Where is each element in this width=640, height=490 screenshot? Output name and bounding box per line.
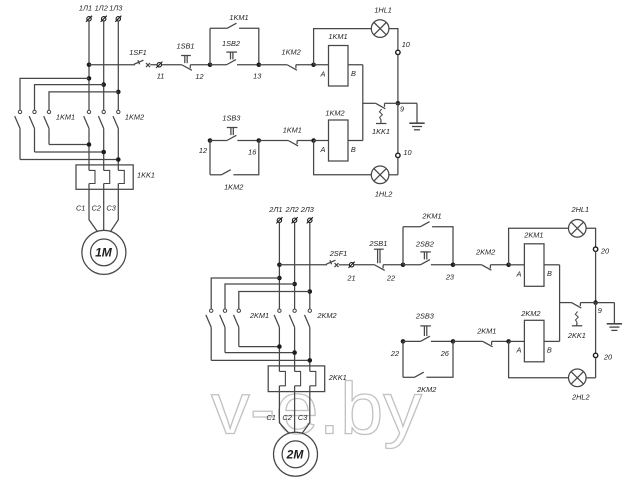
svg-text:1M: 1M xyxy=(95,246,113,260)
terminal 1L2 xyxy=(102,17,106,21)
wire coils common to thermal contact xyxy=(363,102,376,104)
node 9 xyxy=(593,300,598,305)
wire reverse loop from L2 xyxy=(225,284,295,309)
signal lamp 1HL1 xyxy=(371,20,389,38)
svg-text:A: A xyxy=(320,69,326,78)
svg-text:1KK1: 1KK1 xyxy=(137,171,155,180)
contactor 1KM2 reversing pole 3 xyxy=(47,110,50,113)
contactor 1KM2 reversing pole 1 xyxy=(18,110,21,113)
svg-text:1KM1: 1KM1 xyxy=(56,113,75,122)
start button 2SB2 xyxy=(420,260,430,265)
wire interlock to coil node xyxy=(490,264,508,266)
thermal contact 1KK1 (NC) xyxy=(376,103,386,109)
svg-text:1KM1: 1KM1 xyxy=(229,13,248,22)
svg-text:C3: C3 xyxy=(298,413,308,422)
wire thermal contact to node 9 xyxy=(385,102,398,104)
auxiliary contact 2KM1 (seal-in) xyxy=(420,222,429,227)
svg-text:2KM1: 2KM1 xyxy=(249,311,269,320)
junction coil 1 node xyxy=(311,62,316,67)
wire right bus vertical xyxy=(559,265,561,342)
wire bus to lamp 2 corner xyxy=(595,358,597,378)
svg-text:2KK1: 2KK1 xyxy=(567,331,586,340)
terminal 1L3 xyxy=(116,17,120,21)
terminal 2L1 xyxy=(277,218,281,222)
wire seal-in branch left xyxy=(403,226,420,228)
wire node to coil 2KM1 xyxy=(509,264,525,266)
wire to stop button xyxy=(354,264,375,266)
svg-text:B: B xyxy=(351,145,356,154)
stop button 2SB1 xyxy=(375,265,385,271)
wire reverse return to L1 column xyxy=(49,144,89,146)
junction reverse return on column 2 xyxy=(101,150,106,155)
main switch 2SF1 xyxy=(279,264,327,266)
junction 22 xyxy=(401,263,406,268)
svg-text:1SB2: 1SB2 xyxy=(222,39,240,48)
svg-text:2M: 2M xyxy=(286,447,305,461)
wire to motor C3 xyxy=(302,386,309,433)
start button 2SB3 xyxy=(420,336,430,341)
svg-text:1KM2: 1KM2 xyxy=(325,109,344,118)
wire to motor C2 xyxy=(294,386,296,433)
svg-text:C1: C1 xyxy=(76,204,85,213)
contactor 2KM2 reversing pole 1 xyxy=(210,309,213,312)
svg-text:v-e.by: v-e.by xyxy=(211,369,423,450)
svg-text:2KM1: 2KM1 xyxy=(421,211,441,220)
contactor 2KM2 reversing pole 2 xyxy=(223,309,226,312)
svg-text:1KM2: 1KM2 xyxy=(282,48,301,57)
wire SB3 to junction xyxy=(237,140,258,142)
auxiliary contact 1KM1 (seal-in) xyxy=(227,23,236,28)
svg-text:C3: C3 xyxy=(106,204,116,213)
svg-text:26: 26 xyxy=(440,349,450,358)
svg-text:16: 16 xyxy=(248,148,257,157)
svg-text:B: B xyxy=(547,346,552,355)
svg-text:2KM2: 2KM2 xyxy=(316,311,336,320)
interlock contact 1KM1 (NC) xyxy=(288,141,298,146)
svg-text:1KM2: 1KM2 xyxy=(125,113,144,122)
junction 26 xyxy=(451,339,456,344)
junction on L3 (reverse loop) xyxy=(308,289,313,294)
auxiliary contact 2KM2 (seal-in) xyxy=(414,372,423,377)
wire SB2 to junction xyxy=(431,264,453,266)
wire reverse loop from L2 xyxy=(35,85,104,111)
svg-text:12: 12 xyxy=(199,146,207,155)
svg-text:2SB2: 2SB2 xyxy=(415,239,434,248)
svg-text:2KM1: 2KM1 xyxy=(476,326,496,335)
heater element phase 3 xyxy=(310,371,316,385)
wire coil 2 to right bus xyxy=(544,340,560,342)
wire reverse return to L3 column xyxy=(211,359,310,361)
contactor 1KM2 reversing pole 2 xyxy=(33,110,36,113)
wire reverse loop from L3 xyxy=(239,292,310,310)
wire reverse return to L2 column xyxy=(35,151,104,153)
svg-text:2SB3: 2SB3 xyxy=(415,311,435,320)
start button 1SB3 xyxy=(227,135,237,140)
wire phase L1 vertical xyxy=(278,223,280,309)
contactor 2KM1 pole 3 xyxy=(308,309,311,312)
signal lamp 1HL2 xyxy=(371,166,389,184)
coil 2KM2 xyxy=(524,320,544,362)
wire node to coil 1KM2 xyxy=(314,140,329,142)
junction on L2 (reverse loop) xyxy=(101,82,106,87)
terminal 10 (upper) xyxy=(396,50,400,54)
wire lamp 1 to supply bus xyxy=(586,228,596,247)
wire node down to lamp 2 xyxy=(314,141,372,175)
wire reverse return to L2 column xyxy=(225,352,295,354)
svg-text:11: 11 xyxy=(157,72,165,81)
svg-text:C1: C1 xyxy=(266,413,275,422)
svg-text:23: 23 xyxy=(445,272,455,281)
heater element phase 1 xyxy=(279,371,285,385)
contactor 1KM1 pole 3 xyxy=(117,110,120,113)
coil 1KM2 xyxy=(329,120,349,161)
wire to interlock contact xyxy=(453,264,482,266)
svg-text:1KM1: 1KM1 xyxy=(328,32,347,41)
wire coils common to thermal contact xyxy=(560,302,572,304)
junction coil 1 node xyxy=(506,263,511,268)
coil 2KM1 xyxy=(524,244,544,286)
wire lamp 2 to supply bus xyxy=(586,377,596,379)
svg-text:2HL1: 2HL1 xyxy=(571,205,590,214)
interlock contact 1KM2 (NC) xyxy=(287,65,297,70)
signal lamp 2HL2 xyxy=(569,369,587,387)
svg-text:B: B xyxy=(351,69,356,78)
wire supply bus to node 9 xyxy=(595,251,597,302)
svg-text:A: A xyxy=(515,346,521,355)
wire phase L2 vertical xyxy=(294,223,296,309)
svg-text:2SF1: 2SF1 xyxy=(329,249,348,258)
wire junction down to seal-in 2 xyxy=(209,141,211,175)
interlock contact 2KM1 (NC) xyxy=(483,341,493,346)
junction reverse return on column 3 xyxy=(308,358,313,363)
junction 12 (rung 2) xyxy=(208,138,213,143)
motor 2M xyxy=(274,432,318,476)
wire right bus vertical xyxy=(362,65,364,141)
interlock contact 2KM2 (NC) xyxy=(482,265,492,270)
motor 1M xyxy=(82,230,126,274)
wire SB2 to junction xyxy=(237,64,259,66)
svg-text:1Л3: 1Л3 xyxy=(109,4,123,13)
svg-text:1KK1: 1KK1 xyxy=(372,127,390,136)
svg-text:1SB1: 1SB1 xyxy=(177,42,195,51)
junction 16 xyxy=(257,138,262,143)
wire bus node 9 down xyxy=(397,103,399,153)
wire lamp 1 to supply bus xyxy=(389,29,398,51)
wire seal-in 2 left xyxy=(403,376,414,378)
wire SB3 to junction xyxy=(431,340,453,342)
wire junction to start button xyxy=(403,264,420,266)
heater element phase 1 xyxy=(89,170,95,183)
wire seal-in 2 right xyxy=(426,341,453,377)
svg-text:1SF1: 1SF1 xyxy=(129,48,147,57)
wire coil 2 to right bus xyxy=(348,140,363,142)
junction 23 xyxy=(451,263,456,268)
terminal 1L1 xyxy=(87,17,91,21)
svg-text:C2: C2 xyxy=(282,413,291,422)
junction on L1 (control tap) xyxy=(277,263,282,268)
wire reverse return to L1 column xyxy=(239,346,280,348)
terminal 2L2 xyxy=(292,218,296,222)
wire to motor C3 xyxy=(111,184,119,232)
junction coil 2 node xyxy=(506,339,511,344)
junction on L1 (reverse loop) xyxy=(277,276,282,281)
wire reverse loop from L3 xyxy=(49,92,118,110)
wire junction up to seal-in branch xyxy=(402,227,404,265)
wire seal-in branch right xyxy=(432,227,453,265)
heater element phase 2 xyxy=(295,371,301,385)
contactor 2KM1 pole 2 xyxy=(293,309,296,312)
wire SB1 to junction xyxy=(383,264,403,266)
terminal 21 xyxy=(349,263,353,267)
wire interlock to coil node xyxy=(296,64,314,66)
wire seal-in 2 left xyxy=(210,174,221,176)
coil 1KM1 xyxy=(329,46,349,87)
main switch 1SF1 xyxy=(89,64,135,66)
wire interlock 2 to coil node xyxy=(492,340,509,342)
svg-text:21: 21 xyxy=(346,273,355,282)
wire phase L1 vertical xyxy=(88,21,90,110)
wire SB1 to junction xyxy=(190,64,210,66)
wire to interlock contact xyxy=(259,64,287,66)
terminal 20 (lower) xyxy=(593,353,597,357)
svg-text:A: A xyxy=(515,269,521,278)
wire phase L3 vertical xyxy=(309,223,311,309)
svg-text:2SB1: 2SB1 xyxy=(368,239,387,248)
svg-text:13: 13 xyxy=(253,72,262,81)
heater element phase 2 xyxy=(104,170,110,183)
svg-text:1HL1: 1HL1 xyxy=(374,5,392,14)
junction reverse return on column 1 xyxy=(87,142,92,147)
start button 1SB2 xyxy=(227,60,237,65)
wire junction up to seal-in branch xyxy=(209,28,211,64)
wire reverse loop from L1 xyxy=(211,278,279,309)
junction 13 xyxy=(257,62,262,67)
thermal relay 1KK1 (power element box) xyxy=(76,165,133,189)
wire seal-in branch right xyxy=(239,28,259,64)
wire reverse loop from L1 xyxy=(20,78,89,110)
svg-text:2KM2: 2KM2 xyxy=(475,248,495,257)
svg-text:10: 10 xyxy=(402,40,411,49)
svg-text:B: B xyxy=(547,269,552,278)
svg-text:2KM2: 2KM2 xyxy=(520,309,540,318)
wire lamp 2 to supply bus xyxy=(389,174,398,176)
wire bus to lamp 2 corner xyxy=(397,158,399,175)
svg-text:9: 9 xyxy=(598,306,602,315)
wire to stop button xyxy=(162,64,182,66)
wire junction to start button xyxy=(210,64,227,66)
junction 22 (rung 2) xyxy=(401,339,406,344)
terminal 11 xyxy=(157,63,161,67)
wire to interlock contact 2 xyxy=(453,340,483,342)
wire coil 1 to right bus xyxy=(544,264,560,266)
junction 12 xyxy=(208,62,213,67)
contactor 2KM1 pole 1 xyxy=(278,309,281,312)
auxiliary contact 1KM2 (seal-in) xyxy=(221,170,230,175)
wire junction to start button 2 xyxy=(403,340,420,342)
wire junction to start button 2 xyxy=(210,140,227,142)
svg-text:20: 20 xyxy=(603,353,613,362)
heater element phase 3 xyxy=(118,170,124,183)
junction reverse return on column 3 xyxy=(116,157,121,162)
wire junction down to seal-in 2 xyxy=(402,341,404,377)
wire to motor C1 xyxy=(279,386,288,433)
junction on L1 (reverse loop) xyxy=(87,76,92,81)
svg-text:1SB3: 1SB3 xyxy=(222,114,241,123)
signal lamp 2HL1 xyxy=(569,220,587,238)
wire seal-in 2 right xyxy=(233,141,258,175)
contactor 2KM2 reversing pole 3 xyxy=(237,309,240,312)
wire interlock 2 to coil node xyxy=(297,140,314,142)
terminal 20 (upper) xyxy=(593,247,597,251)
junction reverse return on column 2 xyxy=(292,350,297,355)
svg-text:10: 10 xyxy=(403,148,412,157)
svg-text:2HL2: 2HL2 xyxy=(571,392,590,401)
wire to interlock contact 2 xyxy=(259,140,289,142)
junction on L3 (reverse loop) xyxy=(116,90,121,95)
svg-text:2Л3: 2Л3 xyxy=(300,205,315,214)
wire phase L3 vertical xyxy=(117,21,119,110)
junction on L2 (reverse loop) xyxy=(292,282,297,287)
svg-text:2KM2: 2KM2 xyxy=(416,385,436,394)
svg-text:2Л2: 2Л2 xyxy=(284,205,298,214)
terminal 10 (lower) xyxy=(396,153,400,157)
svg-text:12: 12 xyxy=(195,72,203,81)
wire node up to lamp 1 xyxy=(509,228,569,264)
svg-text:1KM2: 1KM2 xyxy=(224,182,243,191)
wire bus node 9 down xyxy=(595,303,597,354)
svg-text:1KM1: 1KM1 xyxy=(283,126,302,135)
thermal relay 2KK1 (power element box) xyxy=(268,366,325,392)
wire node up to lamp 1 xyxy=(314,29,372,65)
svg-text:1Л2: 1Л2 xyxy=(95,4,108,13)
wire node to coil 1KM1 xyxy=(314,64,329,66)
wire coil 1 to right bus xyxy=(348,64,363,66)
svg-text:2KM1: 2KM1 xyxy=(523,230,543,239)
stop button 1SB1 xyxy=(182,65,192,71)
wire thermal contact to node 9 xyxy=(580,302,595,304)
junction reverse return on column 1 xyxy=(277,344,282,349)
wire reverse return to L3 column xyxy=(20,159,118,161)
svg-text:1Л1: 1Л1 xyxy=(79,4,92,13)
svg-text:22: 22 xyxy=(386,273,395,282)
svg-text:C2: C2 xyxy=(92,204,101,213)
ground xyxy=(596,302,615,304)
contactor 1KM1 pole 1 xyxy=(87,110,90,113)
wire node to coil 2KM2 xyxy=(509,340,525,342)
junction coil 2 node xyxy=(311,138,316,143)
svg-text:A: A xyxy=(320,145,326,154)
junction on L1 (control tap) xyxy=(87,62,92,67)
wire to motor C2 xyxy=(103,184,105,231)
svg-text:2Л1: 2Л1 xyxy=(268,205,282,214)
thermal contact 2KK1 (NC) xyxy=(572,303,582,309)
contactor 1KM1 pole 2 xyxy=(102,110,105,113)
wire node down to lamp 2 xyxy=(509,341,569,377)
terminal 2L3 xyxy=(308,218,312,222)
svg-text:2KK1: 2KK1 xyxy=(328,373,347,382)
svg-text:22: 22 xyxy=(390,349,399,358)
wire phase L2 vertical xyxy=(103,21,105,110)
wire seal-in branch left xyxy=(210,27,227,29)
svg-text:9: 9 xyxy=(400,105,404,114)
ground xyxy=(398,102,417,104)
node 9 xyxy=(396,101,401,106)
svg-text:20: 20 xyxy=(600,247,610,256)
wire supply bus to node 9 xyxy=(397,55,399,104)
svg-text:1HL2: 1HL2 xyxy=(375,189,393,198)
wire to motor C1 xyxy=(89,184,97,232)
